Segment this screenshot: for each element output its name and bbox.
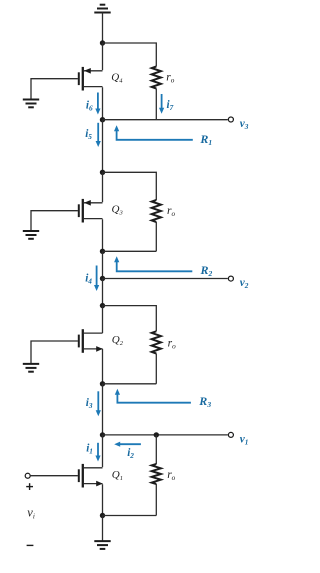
label + (input polarity) — [26, 483, 33, 490]
wire — [103, 434, 228, 436]
resistance arrow R2 — [114, 256, 192, 271]
wire — [102, 120, 104, 173]
ground (bottom, Q1 source) — [94, 541, 110, 549]
node F — [100, 303, 105, 308]
ground (top, inverted) — [94, 5, 110, 13]
node I — [100, 513, 105, 518]
svg-text:i2: i2 — [127, 447, 134, 460]
terminal v3 — [228, 117, 233, 122]
node H2 — [154, 432, 159, 437]
resistance arrow R1 — [114, 125, 193, 140]
wire — [103, 172, 157, 200]
wire — [155, 435, 157, 464]
wire — [103, 119, 228, 121]
wire — [31, 341, 78, 364]
ground (Q3 gate) — [23, 231, 39, 239]
transistor Q1 — [79, 464, 103, 488]
transistor Q4 — [79, 67, 103, 91]
transistor Q3 — [79, 199, 103, 223]
wire — [102, 306, 104, 334]
current arrow i6 — [95, 93, 100, 115]
svg-text:R3: R3 — [198, 394, 211, 409]
terminal v_i (input) — [25, 473, 30, 478]
wire — [155, 354, 157, 384]
transistor Q2 — [79, 329, 103, 353]
wire — [102, 435, 104, 467]
wire — [155, 484, 157, 516]
current arrow i5 — [96, 123, 101, 147]
svg-text:v1: v1 — [240, 433, 249, 446]
wire — [155, 222, 157, 251]
wire — [102, 384, 104, 435]
wire — [102, 516, 104, 542]
current arrow i4 — [94, 266, 99, 292]
svg-text:vi: vi — [27, 505, 35, 520]
ground (Q2 gate) — [23, 364, 39, 372]
node G — [100, 381, 105, 386]
current arrow i7 — [159, 94, 164, 114]
terminal v2 — [228, 276, 233, 281]
svg-text:i1: i1 — [86, 442, 93, 455]
wire — [103, 250, 157, 252]
current arrow i3 — [96, 391, 101, 416]
wire — [102, 349, 104, 384]
wire — [102, 13, 104, 44]
wire — [103, 383, 157, 385]
current arrow i2 — [114, 442, 141, 447]
resistance arrow R3 — [115, 389, 191, 403]
svg-text:i4: i4 — [85, 273, 92, 286]
label - (input polarity) — [27, 544, 34, 546]
wire — [102, 43, 104, 70]
wire — [103, 43, 157, 67]
svg-text:i7: i7 — [167, 99, 174, 112]
svg-text:ro: ro — [166, 72, 174, 85]
wire — [31, 475, 78, 477]
resistor r_o (Q3 output) — [152, 200, 161, 222]
wire — [102, 279, 104, 306]
svg-text:ro: ro — [167, 205, 175, 218]
svg-text:v2: v2 — [240, 277, 249, 290]
svg-text:i6: i6 — [86, 99, 93, 112]
svg-text:ro: ro — [167, 469, 175, 482]
wire — [103, 306, 157, 332]
wire — [103, 278, 228, 280]
node B (v3 node) — [100, 117, 105, 122]
svg-text:Q3: Q3 — [112, 204, 124, 217]
svg-text:R1: R1 — [199, 132, 212, 147]
svg-text:i5: i5 — [85, 128, 92, 141]
node D — [100, 249, 105, 254]
wire — [31, 211, 78, 231]
terminal v1 — [228, 432, 233, 437]
svg-text:i3: i3 — [86, 397, 93, 410]
wire — [102, 251, 104, 278]
svg-text:v3: v3 — [240, 118, 249, 131]
wire — [155, 89, 157, 120]
wire — [102, 172, 104, 202]
node H (v1 node) — [100, 432, 105, 437]
node E (v2 node) — [100, 276, 105, 281]
node C — [100, 170, 105, 175]
wire — [31, 79, 78, 100]
wire — [102, 87, 104, 119]
svg-text:R2: R2 — [200, 263, 213, 278]
svg-text:Q4: Q4 — [111, 72, 123, 85]
resistor r_o (Q1 output) — [152, 464, 161, 484]
svg-text:Q1: Q1 — [112, 469, 123, 482]
wire — [102, 484, 104, 515]
ground (Q4 gate) — [23, 100, 39, 108]
svg-text:Q2: Q2 — [112, 334, 124, 347]
resistor r_o (Q2 output) — [152, 331, 161, 353]
svg-text:ro: ro — [168, 337, 176, 350]
resistor r_o (Q4 output) — [152, 67, 161, 89]
wire — [103, 515, 157, 517]
node A — [100, 40, 105, 45]
wire — [102, 219, 104, 251]
current arrow i1 — [95, 443, 100, 462]
